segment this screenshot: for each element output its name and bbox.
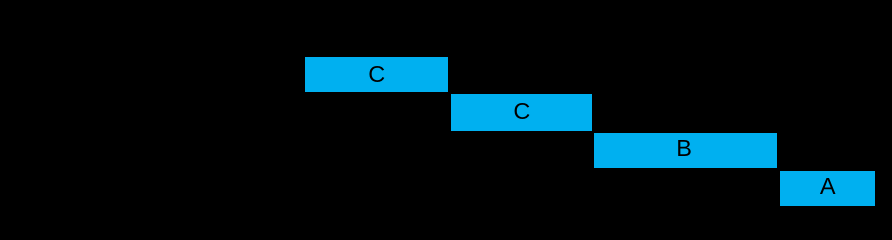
bar C1 (305, 57, 448, 92)
bar B (594, 133, 777, 168)
bar A (780, 171, 875, 206)
bar C2 (451, 94, 592, 130)
